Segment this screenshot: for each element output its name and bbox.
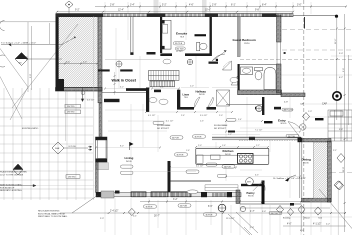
- svg-text:4'-1 1/2": 4'-1 1/2": [166, 121, 174, 123]
- dining floor hatch: [314, 142, 328, 198]
- short stub below top wall right: [304, 17, 306, 29]
- svg-text:2'-3": 2'-3": [200, 121, 204, 123]
- svg-text:8'-4": 8'-4": [27, 56, 29, 60]
- svg-text:3'-8": 3'-8": [339, 129, 343, 131]
- entry closet north wall segments: [255, 107, 264, 110]
- svg-text:Living: Living: [125, 156, 134, 160]
- svg-text:16. Subfloor + 1'-0" 1/4" = 10: 16. Subfloor + 1'-0" 1/4" = 10'-1 3/4": [273, 177, 306, 180]
- grid bubble left of bedroom door: [187, 59, 193, 65]
- deck bottom-left corner block: [56, 79, 65, 91]
- svg-text:10'-6": 10'-6": [205, 10, 211, 12]
- svg-text:11'-0": 11'-0": [343, 167, 345, 172]
- svg-text:3'-6": 3'-6": [262, 211, 266, 213]
- svg-text:RELOCATE EXISTING: RELOCATE EXISTING: [38, 210, 60, 213]
- svg-text:36 POH: 36 POH: [180, 205, 187, 207]
- svg-text:2'-9": 2'-9": [212, 4, 217, 6]
- guest bedroom right wall upper: [277, 15, 282, 42]
- keynote diamond 1: [15, 53, 88, 149]
- right dimension lines: [337, 14, 349, 232]
- svg-text:5'-4": 5'-4": [238, 119, 242, 121]
- entry symbol circle: [300, 124, 306, 130]
- entry west small marks: [228, 131, 235, 133]
- svg-text:SD TILE: SD TILE: [175, 43, 183, 45]
- ensuite south wall segment: [185, 53, 211, 56]
- svg-text:36 POH: 36 POH: [146, 206, 153, 208]
- svg-text:1hr: 1hr: [19, 62, 22, 65]
- hearth pad below fireplace: [96, 163, 109, 170]
- svg-text:DN TRD: DN TRD: [67, 106, 75, 108]
- svg-text:8'-4": 8'-4": [262, 4, 267, 6]
- bullseye right: [333, 92, 341, 100]
- west wall of living (vertical): [98, 17, 102, 103]
- wall east of bath: [281, 93, 305, 97]
- bath door triangle: [231, 76, 238, 85]
- dashed grid horizontals right: [282, 30, 352, 173]
- svg-text:Kitchen: Kitchen: [223, 149, 234, 153]
- hatched existing deck block: [59, 17, 99, 88]
- top dimension line: [57, 7, 346, 12]
- svg-text:WOOD: WOOD: [281, 123, 287, 125]
- svg-text:12X10: 12X10: [244, 43, 249, 45]
- svg-text:4'-0": 4'-0": [83, 62, 87, 64]
- svg-text:2'-0": 2'-0": [219, 115, 223, 117]
- svg-text:4'-3 1/2": 4'-3 1/2": [87, 99, 95, 101]
- wall stub horizontal at walk-in closet: [104, 99, 120, 102]
- svg-text:36 POH: 36 POH: [271, 213, 278, 215]
- relocate note: [38, 195, 98, 218]
- electrical panel gray box on south wall: [101, 191, 114, 198]
- interior dimension strings: [96, 17, 300, 198]
- svg-text:5'-2": 5'-2": [162, 4, 167, 6]
- entry porch steps grid: [328, 110, 352, 141]
- svg-text:4'-1 1/2": 4'-1 1/2": [196, 166, 204, 168]
- kitchen island: [196, 148, 269, 164]
- svg-text:NO STRUCT: NO STRUCT: [157, 128, 170, 130]
- svg-text:60 TWO: 60 TWO: [176, 51, 183, 53]
- west wall below fireplace: [96, 162, 99, 193]
- svg-text:OUTLINE: OUTLINE: [68, 146, 77, 148]
- patio edge arrow note: [0, 184, 36, 186]
- svg-text:2'-2": 2'-2": [326, 224, 330, 226]
- bath bottom wall: [238, 90, 282, 95]
- svg-text:9'-8": 9'-8": [255, 10, 260, 12]
- rotated dim texts: [27, 38, 345, 172]
- svg-text:1HR: 1HR: [55, 148, 60, 150]
- ensuite toilet: [197, 42, 207, 51]
- svg-text:12'-4": 12'-4": [118, 10, 124, 12]
- svg-text:36 POH: 36 POH: [288, 136, 295, 138]
- WIC corner wall chunk: [147, 52, 156, 55]
- svg-text:Linen: Linen: [183, 93, 190, 96]
- ensuite shower: [160, 20, 171, 49]
- diamond symbol top-left: [65, 1, 73, 14]
- WIC dim tick column: [114, 72, 116, 95]
- ensuite/bedroom divider wall: [210, 17, 212, 56]
- svg-text:4'-8": 4'-8": [284, 102, 288, 104]
- wall pantry top: [170, 180, 211, 182]
- svg-text:36 POH: 36 POH: [224, 166, 231, 168]
- living/kitchen divider wall: [168, 161, 171, 192]
- dashed grid line vertical: [303, 0, 305, 235]
- grid bubble circle bottom: [218, 204, 226, 235]
- patio east edge line: [93, 16, 95, 200]
- pantry left hatched wall: [236, 190, 240, 204]
- pantry top wall: [241, 184, 262, 186]
- walk-in closet south wall: [126, 88, 148, 91]
- svg-text:3'-0 1/2": 3'-0 1/2": [200, 115, 208, 117]
- svg-text:FOR EDGE OF: FOR EDGE OF: [0, 187, 15, 189]
- mid wall kitchen/entry: [212, 137, 302, 142]
- oval labels 36POH: [144, 121, 300, 216]
- DN TRD boxes: [65, 104, 199, 178]
- svg-text:T.O. Surface + 0'-0" + 34/38 +: T.O. Surface + 0'-0" + 34/38 + 1 1/2": [1, 41, 36, 44]
- hallway dim string: [145, 111, 233, 117]
- extra oval labels kitchen south: [206, 163, 227, 177]
- svg-text:2'-9": 2'-9": [100, 218, 104, 220]
- bath oval label: [230, 77, 238, 82]
- svg-text:9'-2": 9'-2": [75, 10, 80, 12]
- svg-text:2'-2": 2'-2": [256, 145, 260, 147]
- svg-text:1'-9": 1'-9": [308, 111, 312, 113]
- house top wall band: [56, 14, 293, 17]
- svg-text:DN TRD: DN TRD: [68, 177, 76, 179]
- svg-text:8'-0": 8'-0": [120, 146, 124, 148]
- keynote diamond right with stem: [334, 181, 343, 235]
- svg-text:EXISTING PATIO: EXISTING PATIO: [22, 127, 39, 130]
- svg-text:Entry: Entry: [278, 118, 286, 122]
- label boxes lower left of living: [121, 165, 199, 194]
- fireplace: [88, 137, 107, 162]
- svg-text:WEST WALL TO SOUTH WALL: WEST WALL TO SOUTH WALL: [38, 215, 68, 218]
- ensuite/closet divider wall: [160, 17, 162, 53]
- AB FLUSH label: [282, 108, 293, 111]
- svg-text:1'-6": 1'-6": [186, 150, 190, 152]
- water heater: [246, 178, 254, 186]
- svg-text:Pantry: Pantry: [247, 191, 256, 195]
- grid bubble at hallway/entry: [256, 106, 262, 112]
- south wall of house: [96, 192, 241, 197]
- svg-text:7'-2 1/2": 7'-2 1/2": [255, 130, 263, 132]
- closet wall bar right of ensuite label: [195, 34, 207, 36]
- svg-text:2'-1": 2'-1": [333, 150, 337, 152]
- svg-text:1'-4": 1'-4": [250, 227, 254, 229]
- patio grid: [0, 88, 93, 200]
- svg-text:3'-2": 3'-2": [66, 62, 70, 64]
- walk-in closet shelf line: [105, 58, 160, 60]
- hall closet X door: [217, 90, 230, 106]
- small dark block on south wall: [115, 191, 120, 194]
- right side small texts: [284, 53, 343, 152]
- svg-text:11'-0 1/2": 11'-0 1/2": [226, 218, 235, 220]
- svg-text:AB FLUSH: AB FLUSH: [284, 109, 294, 112]
- circle marker: [81, 91, 85, 95]
- svg-text:4'-1 1/2": 4'-1 1/2": [148, 115, 156, 117]
- svg-text:Guest Bedroom: Guest Bedroom: [233, 38, 256, 42]
- pantry door arc: [253, 181, 265, 191]
- oval label below vanity: [163, 59, 171, 64]
- svg-text:WOOD: WOOD: [199, 94, 205, 96]
- oval labels below stairs: [149, 98, 168, 105]
- svg-text:4'-6": 4'-6": [189, 4, 194, 6]
- dining walls: [302, 139, 332, 142]
- svg-text:1'-2": 1'-2": [228, 134, 232, 136]
- svg-text:5'-0": 5'-0": [30, 74, 32, 78]
- svg-text:12'-2": 12'-2": [335, 38, 337, 44]
- note texts: [0, 124, 323, 220]
- svg-text:4'-0": 4'-0": [300, 230, 304, 232]
- svg-text:KEEP EXISTING PATIO: KEEP EXISTING PATIO: [0, 184, 23, 187]
- svg-text:2'-0": 2'-0": [190, 86, 194, 88]
- ensuite label boxes: [173, 42, 185, 53]
- svg-text:9'-0": 9'-0": [339, 53, 343, 55]
- svg-text:WOOD: WOOD: [225, 154, 231, 156]
- dot east of bedroom wall: [284, 52, 286, 54]
- entry door swing: [288, 122, 301, 137]
- diamond bottom extra: [315, 207, 322, 215]
- svg-text:4'-1 1/2": 4'-1 1/2": [313, 224, 322, 226]
- svg-text:CAP: CAP: [300, 103, 305, 106]
- pantry right black wall: [262, 181, 265, 205]
- svg-text:2'-0": 2'-0": [198, 145, 202, 147]
- svg-text:26'-7": 26'-7": [154, 216, 160, 218]
- WIC partition wall: [130, 17, 133, 55]
- small panel boxes right bottom: [330, 111, 343, 116]
- pantry side counter lines: [205, 185, 238, 191]
- svg-text:WH: WH: [247, 182, 251, 184]
- leader: T.O. surface note: [1, 37, 76, 47]
- extension lines top: [105, 0, 352, 235]
- hall door arcs: [194, 97, 213, 108]
- svg-text:36 POH: 36 POH: [206, 214, 213, 216]
- left diagonal property lines: [0, 22, 78, 120]
- svg-text:6'-2": 6'-2": [120, 87, 124, 89]
- bottom diamonds: [128, 206, 305, 216]
- svg-text:10'-0" TO THE OUTSIDE: 10'-0" TO THE OUTSIDE: [0, 174, 24, 176]
- svg-text:Ensuite: Ensuite: [176, 32, 187, 36]
- deck interior dim string: [59, 62, 99, 65]
- tiny interior dim texts: [120, 86, 287, 177]
- svg-text:Walk in Closet: Walk in Closet: [112, 78, 137, 82]
- hallway south wall segments: [154, 90, 161, 93]
- east wall entry area vertical: [262, 97, 264, 115]
- deck left wall: [56, 14, 59, 88]
- svg-text:FLUSH BEAM: FLUSH BEAM: [157, 124, 171, 127]
- grid band strips top: [154, 0, 159, 14]
- svg-text:DN TRD: DN TRD: [67, 112, 75, 114]
- svg-text:WOOD: WOOD: [303, 163, 309, 165]
- svg-text:2'-4 1/2": 2'-4 1/2": [110, 211, 119, 213]
- left diamonds: [13, 142, 64, 175]
- top dimension texts: [75, 4, 302, 11]
- entry door bars: [264, 121, 273, 123]
- dimension ticks top: [56, 6, 347, 13]
- svg-text:CAP: CAP: [322, 103, 327, 106]
- svg-text:NO STRUCT: NO STRUCT: [214, 128, 227, 130]
- west wall lower segment to fireplace: [99, 103, 102, 137]
- deck bottom wall: [56, 88, 103, 92]
- grid bubble mid: [116, 61, 122, 67]
- section cut diagonals bottom right: [228, 189, 352, 235]
- leader line to keynote dot top-right: [293, 15, 336, 17]
- dashed grid line horizontal: [240, 59, 352, 61]
- bath right wall: [277, 64, 282, 93]
- main bath tub: [264, 68, 276, 90]
- svg-text:WOOD: WOOD: [126, 161, 132, 163]
- svg-text:4'-7": 4'-7": [250, 211, 255, 213]
- hallway walls: [146, 88, 149, 113]
- svg-text:6'-5": 6'-5": [208, 206, 213, 208]
- hexagon symbols partial left edge: [0, 21, 5, 31]
- svg-text:6'-3": 6'-3": [255, 175, 259, 177]
- svg-text:3'-4": 3'-4": [130, 4, 135, 6]
- svg-text:6'-2": 6'-2": [339, 77, 343, 79]
- svg-text:6'-1": 6'-1": [231, 4, 236, 6]
- window right side: [277, 42, 281, 64]
- svg-text:WOOD: WOOD: [248, 195, 254, 197]
- walk-in closet north wall bars: [98, 69, 110, 71]
- wall from bath down: [226, 104, 262, 106]
- svg-text:36 POH: 36 POH: [172, 137, 179, 139]
- svg-text:ELECTRICAL PANEL FROM: ELECTRICAL PANEL FROM: [38, 212, 65, 215]
- svg-text:4'-0": 4'-0": [287, 224, 292, 226]
- svg-text:Hallway: Hallway: [196, 89, 207, 93]
- svg-text:FLUSH BEAM: FLUSH BEAM: [214, 124, 228, 127]
- stairs upper flight: [149, 71, 180, 81]
- bottom dimension lines: [60, 202, 346, 227]
- svg-text:2'-6": 2'-6": [181, 115, 185, 117]
- kitchen dashed line: [239, 139, 300, 141]
- keynote dot: [335, 15, 338, 18]
- bedroom south wall bar: [209, 62, 219, 64]
- svg-text:36 POH: 36 POH: [195, 136, 202, 138]
- keynote flag living: [130, 142, 134, 150]
- guest bedroom west wall: [237, 17, 240, 57]
- svg-text:5'-1": 5'-1": [133, 216, 137, 218]
- stairs lower flight: [150, 81, 175, 87]
- down arrow at deck stair: [81, 88, 83, 102]
- extra bottom dim texts: [100, 211, 330, 232]
- svg-text:NEW PATIO EXISTING: NEW PATIO EXISTING: [0, 189, 22, 192]
- right edge diamonds: [303, 113, 346, 191]
- keynote arrow dining note: [285, 178, 290, 182]
- ensuite vanity counter: [160, 53, 172, 56]
- svg-text:PLACE EXHAUSTS WITHIN: PLACE EXHAUSTS WITHIN: [0, 171, 27, 174]
- bedroom closet door triangle: [223, 61, 232, 70]
- main bath top line: [240, 64, 277, 66]
- ensuite door arc: [212, 51, 227, 62]
- main bath toilet: [255, 68, 263, 80]
- svg-text:3'-2": 3'-2": [173, 199, 178, 201]
- south boundary east portion: [240, 203, 302, 205]
- kitchen dim ticks above island: [195, 145, 269, 148]
- main bath left wall: [238, 64, 240, 90]
- svg-text:3'-0": 3'-0": [297, 4, 302, 6]
- room labels: [112, 32, 311, 198]
- svg-text:1'-6": 1'-6": [222, 145, 226, 147]
- svg-text:Dining: Dining: [302, 158, 311, 162]
- main bath vanity: [241, 67, 253, 75]
- svg-text:2'-8": 2'-8": [110, 4, 115, 6]
- svg-text:Wood: Wood: [304, 218, 310, 220]
- svg-text:9'-6": 9'-6": [343, 68, 345, 72]
- svg-text:36 POH: 36 POH: [177, 154, 184, 156]
